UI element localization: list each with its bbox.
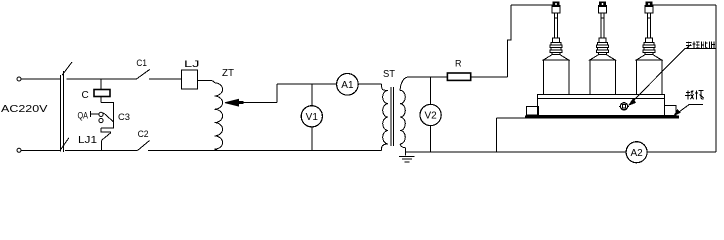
svg-text:A1: A1 bbox=[341, 80, 354, 91]
NC contact LJ1 stop bar bbox=[101, 131, 111, 133]
label 铁板 leader bbox=[676, 105, 704, 115]
wire arrester 3 to right rail bbox=[652, 4, 716, 6]
slab left foot bbox=[526, 107, 538, 116]
svg-text:ZT: ZT bbox=[222, 68, 234, 79]
wire top bus to arrester 1 bbox=[511, 4, 553, 6]
wire C box to parallel group bbox=[100, 97, 102, 103]
arrester 1 body bbox=[543, 60, 569, 95]
transformer ST secondary bottom lead bbox=[400, 144, 409, 156]
switch bottom blade bbox=[61, 138, 70, 150]
wire bottom rail C2 to ST primary bbox=[148, 149, 382, 151]
capacitor C box bbox=[94, 90, 110, 97]
slab right foot bbox=[665, 106, 677, 116]
wire switch top to contact C1 bbox=[67, 78, 137, 80]
wire V2 to ground bus bbox=[430, 126, 432, 153]
wire A2 to right rail bbox=[647, 151, 716, 153]
svg-text:C3: C3 bbox=[118, 112, 130, 123]
wire switch bottom to contact C2 bbox=[65, 149, 138, 151]
contact C1 blade bbox=[136, 69, 149, 79]
node V1 tap bbox=[311, 84, 313, 106]
transformer ST primary coil bbox=[383, 90, 388, 144]
iron plate (thick bar) bbox=[525, 115, 679, 118]
wire top run to ammeter A1 bbox=[277, 83, 337, 85]
arrester 1 shoulder bbox=[543, 55, 569, 60]
node V2 tap bbox=[430, 77, 432, 105]
svg-text:A2: A2 bbox=[630, 148, 643, 159]
ammeter A2 bbox=[626, 142, 647, 163]
svg-text:ST: ST bbox=[383, 69, 395, 80]
transformer ST primary lead bbox=[382, 84, 389, 90]
wire top terminal to switch bbox=[21, 78, 60, 80]
wire riser to top run bbox=[276, 84, 278, 103]
voltmeter V1 bbox=[301, 106, 322, 127]
label 接地排线 (pseudo glyphs) bbox=[686, 41, 715, 48]
voltmeter V2 bbox=[420, 104, 441, 125]
transformer ST secondary top lead bbox=[400, 77, 408, 90]
pushbutton QA actuator bbox=[91, 111, 99, 117]
arrester 1 bbox=[543, 2, 569, 95]
wire right rail bbox=[715, 5, 717, 152]
terminal bottom-left bbox=[17, 148, 21, 152]
wire parallel loop C3 bbox=[101, 102, 114, 127]
ammeter A1 bbox=[337, 74, 359, 96]
autotransformer ZT coil bbox=[211, 81, 223, 150]
NC contact LJ1 blade bbox=[102, 133, 111, 141]
resistor R box bbox=[447, 73, 470, 80]
label 铁板 (pseudo glyphs) bbox=[685, 90, 704, 99]
relay coil LJ box bbox=[182, 70, 198, 89]
svg-text:C1: C1 bbox=[136, 58, 147, 68]
svg-text:V1: V1 bbox=[306, 112, 319, 123]
arrester 2 bbox=[590, 2, 616, 95]
arrester 1 cap bbox=[552, 6, 560, 14]
wire V1 to bottom rail bbox=[311, 127, 313, 151]
switch QS double bar bbox=[60, 71, 63, 152]
svg-text:C2: C2 bbox=[138, 129, 149, 139]
wire ZT bottom to rail bbox=[214, 149, 220, 150]
terminal top-left bbox=[17, 77, 21, 81]
transformer ST secondary coil bbox=[400, 90, 405, 144]
arrester 1 sheds bbox=[553, 38, 560, 42]
wire LJ1 to bottom rail bbox=[101, 140, 103, 150]
ZT wiper arrow bbox=[225, 99, 239, 106]
transformer ST primary bottom lead bbox=[382, 144, 389, 151]
wire A1 to ST bbox=[358, 83, 382, 85]
svg-text:QA: QA bbox=[78, 110, 89, 120]
wire LJ to regulator ZT bbox=[197, 80, 210, 82]
svg-text:V2: V2 bbox=[424, 111, 437, 122]
label underline (ground bar) bbox=[685, 48, 716, 50]
switch top blade bbox=[62, 62, 72, 75]
wire C1 to relay LJ bbox=[149, 78, 182, 80]
wire loop to LJ1 contact bbox=[100, 128, 102, 132]
node C-branch tap bbox=[100, 79, 102, 90]
discharge counter bbox=[620, 103, 627, 110]
wire wiper to riser bbox=[244, 102, 277, 104]
svg-text:R: R bbox=[455, 59, 462, 69]
svg-text:LJ1: LJ1 bbox=[78, 134, 97, 146]
transformer ST core bbox=[391, 87, 394, 146]
pushbutton QA blade bbox=[103, 113, 113, 122]
wire secondary to V2 and R bbox=[409, 76, 448, 78]
arrester mounting slab bbox=[537, 95, 664, 116]
pushbutton QA contact circles bbox=[99, 112, 103, 116]
contact C2 blade bbox=[138, 141, 150, 151]
arrester 3 bbox=[636, 2, 662, 95]
leader to counter bbox=[632, 49, 685, 103]
wire riser to top bus bbox=[508, 5, 512, 77]
svg-text:AC220V: AC220V bbox=[1, 103, 48, 115]
ground bbox=[399, 156, 415, 162]
arrester 1 rod bbox=[554, 13, 557, 38]
ground bus from ST to A2 bbox=[406, 151, 627, 153]
arrester 1 top clamp bbox=[553, 2, 559, 7]
table left edge / ground lead bbox=[496, 118, 498, 152]
svg-text:C: C bbox=[82, 90, 89, 101]
table top line bbox=[497, 117, 525, 119]
wire R to riser bbox=[471, 76, 508, 78]
svg-text:LJ: LJ bbox=[184, 59, 200, 70]
wire bottom terminal to switch bbox=[21, 149, 60, 151]
